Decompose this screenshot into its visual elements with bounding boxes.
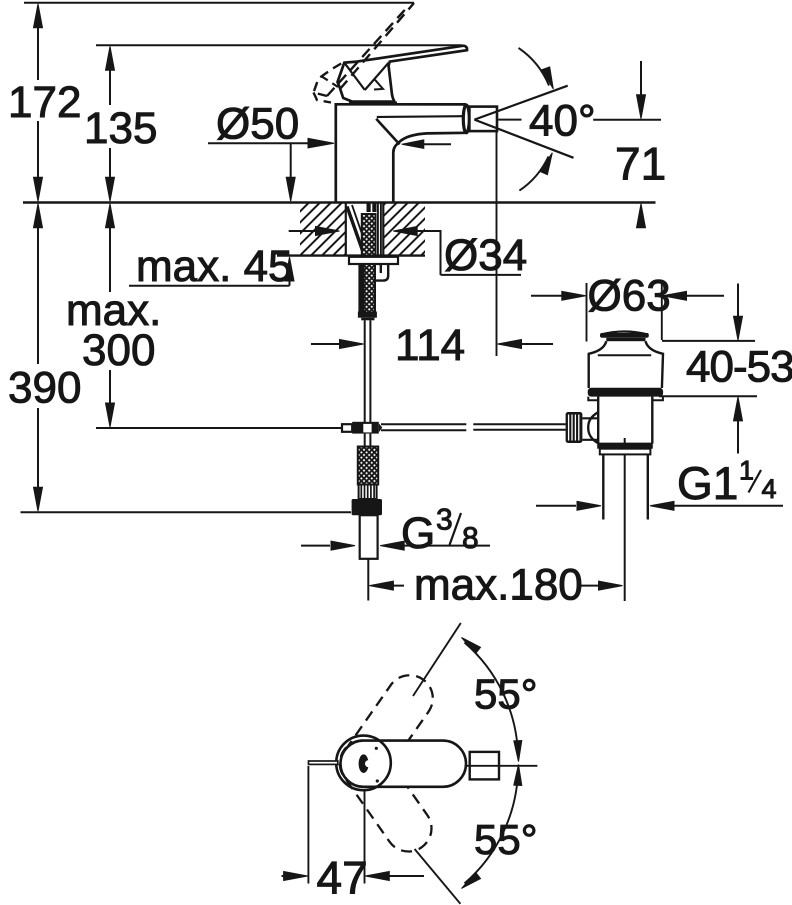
dim 135 vertical [109,66,111,105]
mounting washer below deck [349,257,398,264]
svg-text:55°: 55° [474,816,538,863]
pop-up knob cap [601,332,648,335]
dim 172 vertical [37,24,39,80]
hose below washer: dark band + braid [358,264,363,316]
handle raised (phantom, dashed) [340,3,414,89]
faucet body and spout outline [336,104,466,201]
pop-up body [597,397,599,444]
outlet axis extension to 71 [593,119,661,121]
svg-text:300: 300 [82,326,155,375]
stem boss on body [588,412,599,444]
horizontal actuating rod (left segment) [381,423,466,425]
svg-text:max.180: max.180 [414,561,583,610]
svg-text:71: 71 [615,138,666,190]
inner rod line [624,438,626,601]
upper leader line [413,623,461,696]
phantom handle rotated down 55deg [331,731,441,860]
spout-body junction curve [376,119,399,145]
horizontal actuating rod (right segment) [473,423,566,425]
handle base (faceted) [338,62,395,102]
svg-text:47: 47 [317,852,368,904]
rod continues below linkage [364,434,366,447]
deck datum line [23,201,656,203]
rod linkage block [342,424,352,432]
small arrow at spout underside [420,143,451,145]
deck hatch right part [255,203,474,257]
40deg upper arc with arrowhead [519,48,550,86]
40-53 ref lines [662,340,755,342]
40deg lower arc with arrowhead [519,157,548,191]
dim 71 vertical [640,61,642,98]
phantom handle rotated up 55deg [332,666,442,795]
top view: left spray bar [309,761,338,764]
max45 underline and lower arrow (up to deck bottom) [129,285,290,287]
spout inner lower line [377,115,463,118]
lower leader line [415,849,461,904]
top view: centerline [466,765,537,767]
deck hatch left part [255,203,474,257]
top view: aerator block [470,752,499,780]
union nut lower band [600,449,651,455]
D34 bent leader [440,230,442,275]
extension line below hose [367,559,369,601]
flexible supply hose (braided) [358,447,378,485]
extension line from aerator down (114 right ref) [496,132,498,356]
union nut dark band [597,444,653,449]
svg-text:Ø63: Ø63 [588,272,671,321]
ref line at pop-up rod level (max300 bottom) [96,427,342,429]
svg-text:8: 8 [462,522,479,555]
dim 40-53 vertical [737,284,739,319]
55deg upper arc [465,643,519,755]
spray cone upper line [474,86,567,120]
spray cone lower line [474,120,573,158]
svg-text:55°: 55° [474,670,538,717]
flange lips [588,397,598,401]
svg-text:135: 135 [84,104,157,153]
svg-text:Ø34: Ø34 [444,231,527,280]
dim D34 lines and arrows [289,230,317,232]
mounting hole parts: wedge gasket [347,207,363,251]
top view: small dots [375,747,378,750]
G3/8 thread stub [360,515,378,559]
top view: escutcheon circle [336,736,391,791]
dim 47 extension lines [307,766,309,884]
handle lever (down position) [357,46,467,102]
shank sleeve right lines [377,203,379,256]
svg-text:1: 1 [739,456,754,486]
max45 upper arrow (down to deck top) [290,143,292,180]
handle base facet lines [344,63,365,90]
knob stem [582,417,598,419]
svg-text:G: G [401,509,435,558]
top view: black blob [359,754,369,773]
dim D63 [531,295,562,297]
spout outlet lens [463,105,469,133]
svg-text:172: 172 [8,78,81,127]
dim 47 [282,875,293,877]
dim 390 vertical [37,222,39,364]
G3/8 nut (dark knurled) [352,499,382,515]
top view: handle capsule [341,741,467,787]
svg-text:114: 114 [395,321,465,370]
svg-text:390: 390 [8,364,81,413]
dim max.180 [380,585,404,587]
svg-text:40-53: 40-53 [686,343,792,392]
outlet axis short segment [498,119,521,121]
pop-up trumpet neck [589,341,607,388]
knurled adjuster knob [566,412,583,443]
threaded shank (braided hose in hole) [362,214,376,256]
deck hole edges [345,203,347,256]
hose end ferrule (knurled) [359,485,377,500]
svg-text:Ø50: Ø50 [216,100,299,149]
dim 114 [311,343,340,345]
svg-text:4: 4 [762,474,777,504]
D63 extension lines [586,283,588,342]
extension line (handle down tip level) [96,44,462,46]
ref line at supply hose end (390 bottom) [21,511,352,513]
svg-text:3: 3 [436,504,453,537]
hose ferrule [358,312,377,318]
55deg lower arc [465,772,519,884]
svg-text:max. 45: max. 45 [136,242,293,291]
handle base bottom edge [349,101,397,104]
pop-up pull rod (vertical) [364,320,366,422]
extension line top (handle raised tip level) [24,2,414,4]
svg-text:40°: 40° [529,97,596,146]
deck bottom line [277,254,425,256]
dim G3/8 arrows [301,545,330,547]
dim G1 1/4 [536,505,576,507]
pop-up o-ring (black band) [588,388,663,397]
side tube with elbow [376,265,389,281]
D50 leader line with arrow at body [208,142,312,144]
svg-text:G1: G1 [677,457,738,509]
tailpipe [602,454,604,519]
dim max300 vertical [109,222,111,292]
aerator (mousseur) box [469,107,497,132]
